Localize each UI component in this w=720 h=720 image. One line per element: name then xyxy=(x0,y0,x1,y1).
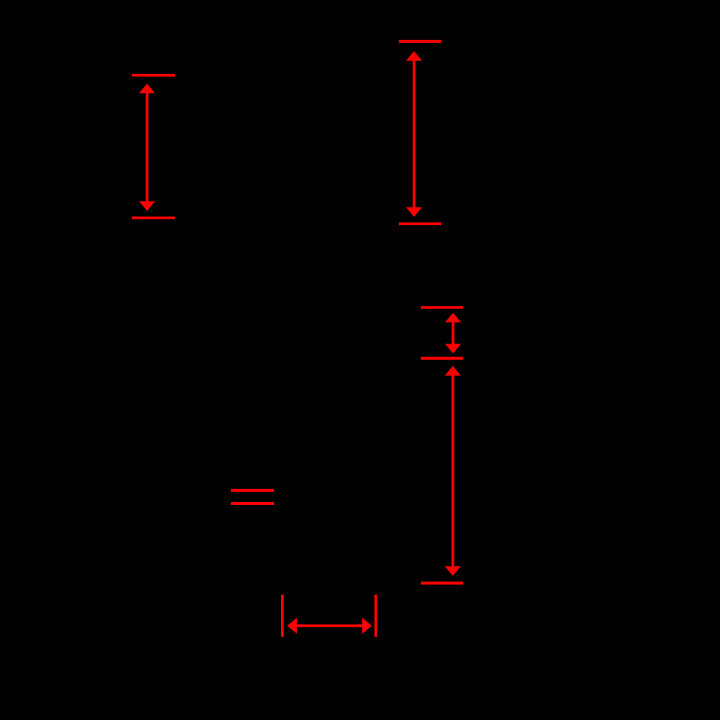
dimension D5 right extension tick xyxy=(374,595,377,637)
dimension D3 up arrowhead xyxy=(445,313,461,323)
capacitor C1 bottom plate xyxy=(231,502,274,505)
dimension D4 bottom extension bar xyxy=(421,582,463,585)
dimension D4 arrow shaft xyxy=(452,375,455,567)
dimension D4 up arrowhead xyxy=(445,366,461,376)
dimension D5 arrow shaft xyxy=(296,624,363,627)
dimension D5 right arrowhead xyxy=(362,618,372,634)
dimension D5 left arrowhead xyxy=(287,618,297,634)
dimension D1 down arrowhead xyxy=(139,201,155,211)
dimension D1 arrow shaft xyxy=(146,92,149,202)
dimension D1 bottom extension bar xyxy=(132,217,175,220)
dimension D4 down arrowhead xyxy=(445,566,461,576)
dimension D1 up arrowhead xyxy=(139,84,155,94)
dimension D2 bottom extension bar xyxy=(399,222,441,225)
dimension D2 arrow shaft xyxy=(413,60,416,209)
dimension D3 / D4 shared extension bar xyxy=(421,357,463,360)
dimension D2 down arrowhead xyxy=(406,207,422,217)
dimension D2 up arrowhead xyxy=(406,51,422,61)
dimension D1 top extension bar xyxy=(132,74,175,77)
capacitor C1 top plate xyxy=(231,489,274,492)
dimension D3 top extension bar xyxy=(421,306,463,309)
dimension D3 arrow shaft xyxy=(452,322,455,346)
dimension D2 top extension bar xyxy=(399,40,441,43)
dimension D3 down arrowhead xyxy=(445,344,461,354)
dimension D5 left extension tick xyxy=(281,595,284,637)
